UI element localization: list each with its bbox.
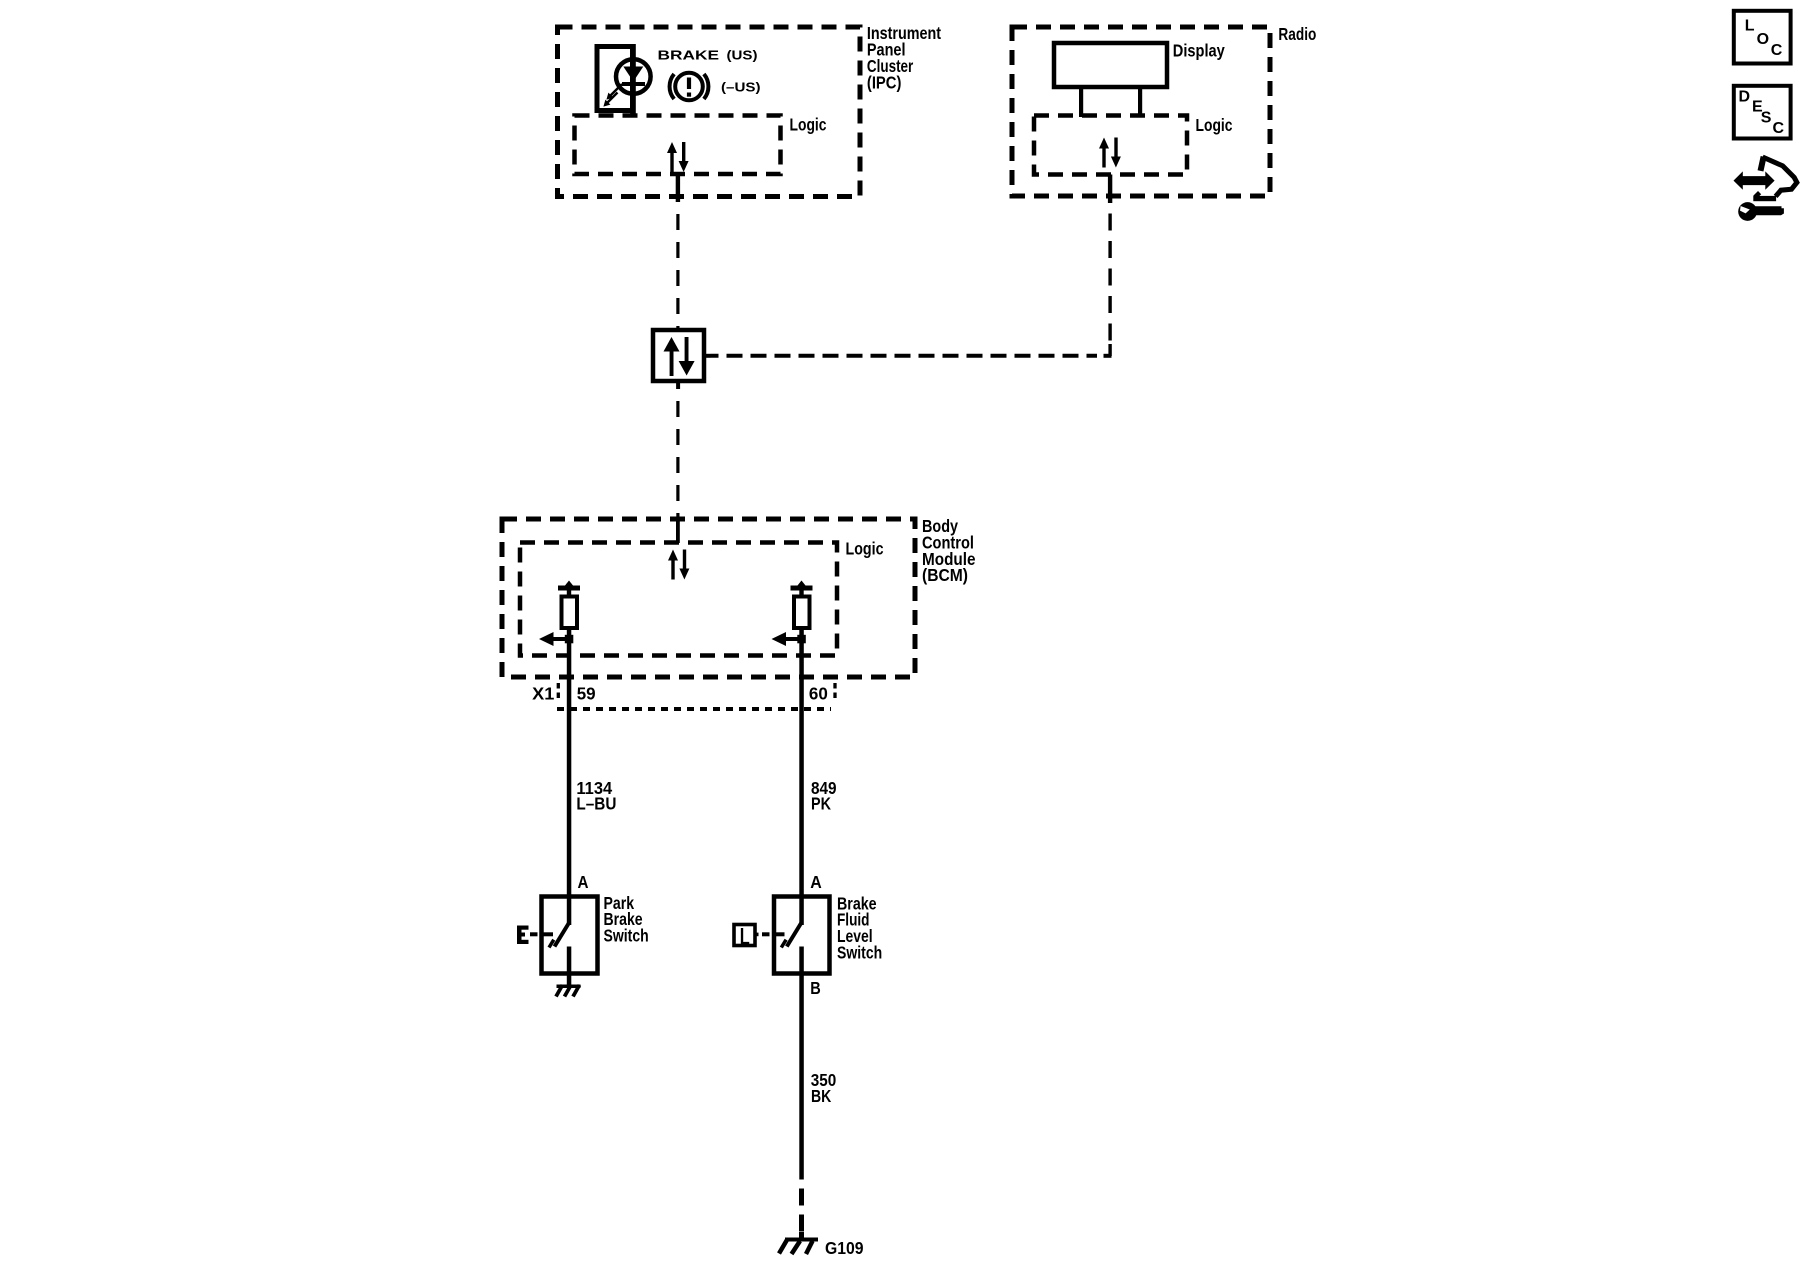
- module box BCM (Body Control Module): [502, 516, 976, 677]
- brake fluid level switch S2: [774, 893, 882, 1179]
- svg-text:A: A: [810, 872, 822, 892]
- dashed wire to ground: [799, 1180, 804, 1233]
- svg-text:BRAKE: BRAKE: [658, 47, 720, 62]
- svg-text:Radio: Radio: [1278, 24, 1316, 44]
- svg-text:C: C: [1773, 120, 1785, 137]
- signal arrow at R1: [539, 632, 573, 646]
- wire stub below Radio logic: [1108, 175, 1112, 204]
- label BRAKE (US): [658, 47, 758, 62]
- BCM Logic box: [520, 539, 884, 656]
- svg-text:Logic: Logic: [846, 539, 884, 559]
- pull-up resistor R1 (to voltage): [558, 581, 580, 629]
- module box Radio: [1012, 24, 1316, 196]
- wire 1134 L-BU (pin 59 to park brake switch): [567, 628, 617, 925]
- fluid level symbol L: [734, 924, 770, 951]
- connector X1 of BCM: [532, 683, 835, 709]
- wire 350 BK: [811, 1070, 837, 1106]
- Radio Logic box: [1034, 115, 1233, 175]
- brake warning symbol ((!)): [670, 73, 709, 101]
- Radio display block: [1054, 40, 1225, 117]
- chassis ground at park brake switch: [556, 985, 581, 997]
- pull-up resistor R2 (to voltage): [791, 581, 813, 629]
- svg-text:L–BU: L–BU: [576, 793, 616, 813]
- BCM serial data arrows: [668, 550, 689, 580]
- svg-text:Logic: Logic: [1196, 115, 1233, 135]
- svg-text:(BCM): (BCM): [922, 565, 968, 585]
- IPC serial data arrows: [667, 142, 689, 172]
- dashed serial data wire gateway to radio (horizontal): [711, 354, 1098, 358]
- wire 849 PK (pin 60 to brake fluid level switch): [799, 628, 836, 925]
- park brake switch S1: [542, 893, 649, 985]
- park brake symbol E: [517, 926, 538, 945]
- svg-text:D: D: [1739, 88, 1751, 105]
- svg-text:A: A: [578, 872, 589, 892]
- dashed serial data wire radio vertical: [1108, 203, 1111, 344]
- icon DESC: [1734, 86, 1791, 139]
- svg-text:Switch: Switch: [604, 926, 649, 946]
- svg-text:L: L: [1745, 18, 1755, 35]
- IPC Logic box: [575, 115, 827, 175]
- dashed serial wire gateway to BCM: [676, 389, 679, 519]
- svg-text:O: O: [1757, 31, 1769, 48]
- svg-text:X1: X1: [532, 684, 554, 704]
- solid entry into BCM logic: [676, 519, 680, 543]
- module box IPC (Instrument Panel Cluster): [558, 23, 942, 196]
- icon LOC: [1734, 11, 1791, 64]
- svg-text:C: C: [1771, 42, 1783, 59]
- svg-text:G109: G109: [825, 1238, 864, 1258]
- indicator lamp L1 BRAKE (rect housing + wire): [597, 44, 636, 116]
- svg-text:(US): (US): [727, 47, 758, 62]
- svg-text:S: S: [1761, 110, 1772, 127]
- svg-text:BK: BK: [811, 1086, 832, 1106]
- svg-text:Display: Display: [1173, 40, 1225, 60]
- LED symbol of BRAKE lamp: [603, 59, 650, 106]
- svg-text:Logic: Logic: [790, 115, 827, 135]
- Radio serial data arrows: [1099, 138, 1121, 168]
- svg-text:59: 59: [577, 684, 596, 704]
- icon harness repair (arrow + wrench): [1734, 157, 1797, 221]
- corner of serial wire: [1104, 354, 1112, 358]
- dashed serial data wire IPC to gateway: [676, 202, 679, 330]
- svg-text:Switch: Switch: [837, 943, 882, 963]
- svg-text:(–US): (–US): [721, 80, 761, 95]
- signal arrow at R2: [772, 632, 806, 646]
- svg-text:L: L: [740, 924, 750, 951]
- svg-text:PK: PK: [811, 793, 831, 813]
- wire stub below IPC logic: [676, 174, 680, 202]
- ground G109: [779, 1232, 864, 1258]
- svg-text:(IPC): (IPC): [867, 72, 902, 92]
- svg-text:60: 60: [809, 684, 828, 704]
- svg-text:B: B: [810, 978, 821, 998]
- serial data gateway box: [653, 330, 711, 389]
